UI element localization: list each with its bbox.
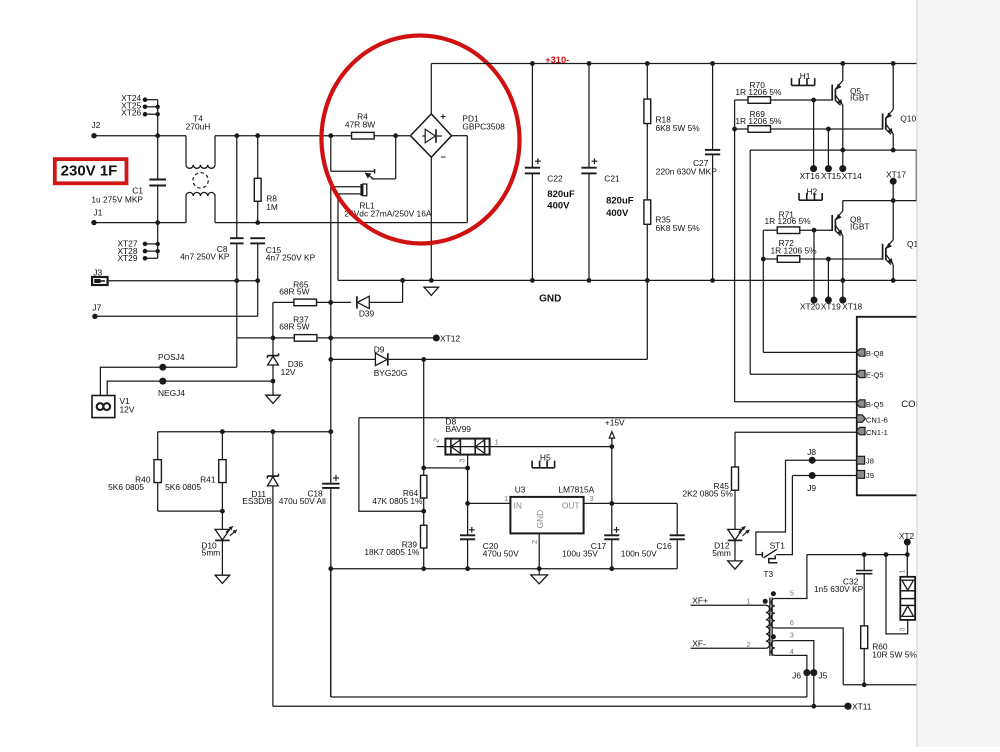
capacitor C32: [863, 555, 865, 571]
resistor R4: [352, 132, 375, 139]
transformer core: [769, 598, 771, 656]
wire J1 line to XT27-29: [157, 223, 159, 259]
svg-text:10R 5W 5%: 10R 5W 5%: [872, 649, 917, 659]
svg-text:100u 35V: 100u 35V: [562, 548, 598, 558]
wire 24V to D8 region: [423, 359, 425, 468]
wire 24V vertical A: [330, 187, 332, 484]
svg-text:3: 3: [790, 630, 794, 639]
zener D36: [272, 338, 274, 356]
pin J8: [857, 456, 865, 464]
wire snubber rail: [807, 554, 907, 556]
capacitor C17: [611, 503, 613, 535]
capacitor C18: [322, 483, 339, 485]
svg-text:+: +: [440, 112, 446, 123]
thermal switch ST1: [756, 460, 786, 554]
svg-text:3: 3: [900, 627, 907, 631]
svg-text:CN1-6: CN1-6: [866, 415, 888, 424]
wire D8 pin3 to U3 IN: [467, 468, 469, 503]
svg-text:BAV99: BAV99: [446, 424, 472, 434]
wire bridge - to GND bus: [430, 157, 432, 280]
svg-text:J5: J5: [818, 671, 827, 681]
svg-text:IGBT: IGBT: [850, 93, 870, 103]
svg-text:J8: J8: [866, 457, 874, 466]
wire XF+ pin1: [691, 604, 766, 606]
svg-text:J9: J9: [866, 471, 874, 480]
svg-text:NEGJ4: NEGJ4: [158, 388, 185, 398]
svg-text:1R 1206 5%: 1R 1206 5%: [765, 216, 812, 226]
transistor Q10: [882, 114, 884, 130]
svg-text:4n7 250V KP: 4n7 250V KP: [180, 252, 230, 262]
header H1: [792, 84, 815, 86]
pin CN1-6: [857, 415, 866, 422]
svg-text:1: 1: [504, 494, 508, 503]
node XT26: [145, 113, 158, 115]
resistor R64: [423, 468, 425, 476]
pin 6 wire: [775, 628, 843, 685]
ground for U3: [538, 569, 540, 575]
wire R40-R41 bottom: [158, 510, 223, 512]
svg-text:18K7 0805 1%: 18K7 0805 1%: [364, 547, 420, 557]
wire J7 to J3 net: [95, 315, 258, 317]
wire bridge + to +310 bus: [430, 64, 432, 114]
node XT20: [813, 230, 815, 300]
node XT14: [839, 165, 846, 172]
capacitor C8: [236, 136, 238, 239]
wire bridge AC right: [452, 135, 468, 137]
wire J3 line: [108, 280, 258, 282]
wire J1 line: [94, 222, 186, 224]
wire B-Q8 vertical: [762, 230, 764, 352]
svg-text:1n5 630V KP: 1n5 630V KP: [814, 584, 864, 594]
connector CON1 box: [857, 317, 917, 496]
svg-text:J7: J7: [92, 303, 101, 313]
svg-text:5: 5: [790, 589, 794, 598]
node XT27: [145, 243, 158, 245]
resistor R40: [157, 432, 159, 460]
pin 3 of U3: [584, 502, 678, 504]
pin CN1-1: [856, 427, 865, 434]
svg-text:B-Q5: B-Q5: [866, 400, 884, 409]
svg-text:47K 0805 1%: 47K 0805 1%: [372, 496, 423, 506]
svg-text:XT2: XT2: [899, 531, 915, 541]
capacitor C27: [710, 61, 715, 66]
capacitor C1: [157, 136, 159, 180]
wire R65 line: [272, 302, 274, 338]
svg-text:LM7815A: LM7815A: [558, 485, 594, 495]
svg-text:1M: 1M: [266, 202, 278, 212]
wire E-Q5 pin: [750, 373, 857, 375]
pin 1 of U3: [468, 502, 511, 504]
svg-text:820uF: 820uF: [547, 189, 575, 200]
pin 3 wire: [775, 641, 814, 707]
node XT24: [145, 99, 158, 101]
svg-text:XT20: XT20: [800, 301, 820, 311]
svg-text:1: 1: [900, 570, 907, 574]
wire D39 to GND bus: [402, 280, 404, 302]
resistor R39: [423, 511, 425, 525]
svg-text:H1: H1: [800, 71, 811, 81]
wire +310 bus: [431, 63, 916, 65]
svg-text:J3: J3: [93, 267, 102, 277]
svg-text:6K8 5W 5%: 6K8 5W 5%: [656, 223, 701, 233]
svg-text:XT26: XT26: [121, 108, 141, 118]
pin 2 of D8: [437, 446, 446, 448]
svg-text:D9: D9: [374, 345, 385, 355]
svg-text:400V: 400V: [547, 200, 570, 211]
svg-text:C21: C21: [604, 174, 620, 184]
relay RL1 coil: [331, 186, 361, 188]
node J6: [803, 669, 810, 676]
svg-text:470u 50V: 470u 50V: [483, 548, 519, 558]
capacitor C20: [467, 503, 469, 535]
svg-text:OUT: OUT: [562, 500, 580, 510]
svg-text:68R 5W: 68R 5W: [279, 321, 309, 331]
svg-text:2: 2: [747, 640, 751, 649]
svg-text:6K8 5W 5%: 6K8 5W 5%: [656, 123, 701, 133]
wire D9 to R18R35 net: [424, 358, 648, 360]
wire CN1-1 pin: [735, 431, 857, 433]
svg-text:4: 4: [790, 647, 794, 656]
svg-text:J1: J1: [94, 208, 103, 218]
svg-text:2: 2: [530, 540, 539, 544]
page edge: [917, 0, 1000, 747]
svg-text:ES3D/B: ES3D/B: [242, 496, 272, 506]
svg-text:B-Q8: B-Q8: [866, 349, 884, 358]
relay RL1 contact arm: [393, 133, 398, 138]
source V1 12V: [92, 396, 115, 418]
pin J9: [857, 471, 865, 479]
svg-text:5mm: 5mm: [712, 548, 731, 558]
svg-text:1u 275V MKP: 1u 275V MKP: [91, 195, 143, 205]
svg-text:470u 50V All: 470u 50V All: [279, 496, 326, 506]
svg-text:230V 1F: 230V 1F: [61, 163, 118, 180]
svg-text:POSJ4: POSJ4: [158, 352, 185, 362]
svg-text:C16: C16: [656, 541, 672, 551]
transistor Q5: [831, 85, 833, 101]
wire B-Q5 pin: [735, 401, 857, 403]
node XT29: [145, 257, 158, 259]
capacitor C21: [587, 61, 592, 66]
svg-text:J2: J2: [92, 120, 101, 130]
wire D11 down to XT11 rail: [272, 486, 274, 706]
capacitor C15: [250, 237, 265, 239]
svg-text:400V: 400V: [606, 208, 629, 219]
svg-text:U3: U3: [515, 485, 526, 495]
resistor R60: [861, 626, 868, 649]
svg-text:R41: R41: [200, 474, 216, 484]
capacitor C16: [676, 503, 678, 535]
node XT15: [827, 129, 829, 169]
svg-text:100n 50V: 100n 50V: [621, 548, 657, 558]
wire XF- pin2: [691, 647, 766, 649]
wire rail2: [843, 684, 916, 686]
svg-text:E-Q5: E-Q5: [866, 371, 884, 380]
wire NEGJ4: [107, 381, 273, 395]
resistor R71: [763, 229, 777, 231]
wire J9 pin: [792, 475, 856, 477]
svg-text:J6: J6: [792, 671, 801, 681]
svg-text:XT16: XT16: [800, 171, 820, 181]
svg-text:H2: H2: [807, 187, 818, 197]
power arrow +15V: [609, 432, 614, 439]
resistor R41: [221, 432, 223, 460]
red circle annotation: [314, 29, 526, 250]
wire R37 line: [237, 337, 295, 339]
ground at bridge: [424, 287, 439, 295]
wire J2 line: [94, 135, 186, 137]
resistor R70: [735, 99, 748, 101]
node XT11: [844, 703, 851, 710]
wire regulator ground rail: [331, 568, 677, 570]
resistor R8: [257, 136, 259, 179]
svg-text:T3: T3: [763, 569, 773, 579]
wire GND bus: [338, 279, 917, 281]
svg-text:1R 1206 5%: 1R 1206 5%: [771, 245, 818, 255]
diode D39: [357, 296, 369, 308]
led D12: [728, 529, 743, 540]
protection diode stack: [906, 542, 908, 577]
svg-text:5K6 0805: 5K6 0805: [108, 482, 144, 492]
svg-text:5mm: 5mm: [202, 548, 221, 558]
resistor R35: [644, 200, 651, 224]
pin 3 of D8: [467, 455, 469, 468]
wire emitter rail: [750, 149, 916, 151]
wire J8 pin: [786, 459, 857, 461]
wire B-Q5 vertical: [734, 100, 736, 402]
svg-text:J9: J9: [807, 483, 816, 493]
pin B-Q5: [856, 400, 865, 407]
wire R4 node A: [328, 133, 333, 138]
wire 24V vertical junctions: [328, 566, 333, 571]
node XT2: [904, 539, 911, 546]
svg-text:68R 5W: 68R 5W: [279, 286, 309, 296]
ground for D36: [272, 381, 274, 395]
node J5: [810, 669, 817, 676]
node XT28: [145, 250, 158, 252]
wire D9net to D8 pin3: [424, 467, 468, 469]
capacitor C22: [530, 61, 535, 66]
svg-text:H5: H5: [540, 452, 551, 462]
ground for D10: [215, 575, 230, 583]
svg-text:XT17: XT17: [886, 170, 906, 180]
svg-text:12V: 12V: [281, 367, 296, 377]
svg-text:220n 630V MKP: 220n 630V MKP: [656, 166, 717, 176]
svg-text:+15V: +15V: [605, 417, 625, 427]
svg-text:47R 8W: 47R 8W: [345, 119, 375, 129]
svg-text:XT18: XT18: [842, 301, 862, 311]
pin B-Q8: [856, 349, 865, 356]
svg-text:XT12: XT12: [440, 334, 460, 344]
wire 24V top line: [158, 431, 331, 433]
transformer secondary winding 2: [771, 641, 775, 656]
led D10: [221, 511, 223, 529]
svg-text:1R 1206 5%: 1R 1206 5%: [735, 87, 782, 97]
wire XT11 line: [273, 705, 848, 707]
pin 4 wire: [775, 655, 807, 697]
svg-text:820uF: 820uF: [606, 196, 634, 207]
transistor Q11: [882, 244, 884, 260]
node XT16: [813, 100, 815, 169]
wire R18-R35: [646, 124, 648, 201]
svg-text:GND: GND: [539, 293, 561, 304]
pin 5 wire: [775, 555, 807, 599]
header H5: [532, 467, 555, 469]
ground for D12: [728, 561, 743, 569]
svg-text:GND: GND: [535, 510, 545, 528]
svg-text:XT11: XT11: [852, 702, 872, 712]
label 230V 1F: [55, 159, 127, 183]
svg-text:Q10: Q10: [900, 113, 916, 123]
wire C8 net down: [236, 281, 238, 368]
resistor R69: [735, 128, 748, 130]
wire collector rail Q8/Q11: [843, 200, 917, 202]
svg-text:–: –: [441, 152, 446, 163]
svg-text:XT19: XT19: [821, 301, 841, 311]
svg-text:IGBT: IGBT: [850, 221, 870, 231]
svg-text:5K6 0805: 5K6 0805: [165, 482, 201, 492]
wire CN1-6 +15V line: [359, 417, 857, 419]
wire Q11 emitter junction: [891, 278, 896, 283]
wire POSJ4: [100, 367, 236, 395]
node XT12: [433, 335, 440, 342]
wire relay coil lead B to GND bus: [337, 194, 339, 281]
pin 1 of D8: [490, 446, 612, 448]
wire bottom rail: [331, 696, 807, 698]
pin E-Q5: [856, 370, 865, 377]
svg-text:XF+: XF+: [692, 596, 708, 606]
svg-text:C22: C22: [547, 174, 563, 184]
svg-text:XT29: XT29: [117, 253, 137, 263]
wire E-Q5 vertical: [749, 150, 751, 374]
transistor Q8: [831, 215, 833, 231]
diode D11 ES3D: [272, 432, 274, 476]
svg-text:1R 1206 5%: 1R 1206 5%: [735, 116, 782, 126]
svg-text:J8: J8: [807, 447, 816, 457]
svg-text:3: 3: [458, 458, 467, 462]
wire stack loop: [886, 555, 908, 634]
wire midpoint: [915, 150, 917, 201]
svg-text:D39: D39: [359, 308, 375, 318]
diode D9 BYG20G: [331, 358, 376, 360]
svg-text:12V: 12V: [120, 404, 135, 414]
svg-text:XF-: XF-: [692, 638, 706, 648]
svg-text:CN1-1: CN1-1: [866, 428, 888, 437]
svg-text:6: 6: [790, 618, 794, 627]
resistor R18: [645, 61, 650, 66]
svg-text:270uH: 270uH: [186, 122, 211, 132]
transformer secondary winding 1: [771, 599, 775, 629]
pin 2 of U3: [538, 533, 540, 568]
node XT18: [840, 278, 845, 283]
transformer primary winding: [766, 605, 770, 648]
svg-text:4n7 250V KP: 4n7 250V KP: [266, 252, 316, 262]
svg-text:3: 3: [590, 494, 594, 503]
resistor R72: [763, 258, 777, 260]
svg-text:IN: IN: [514, 500, 522, 510]
svg-text:BYG20G: BYG20G: [374, 368, 408, 378]
header H2: [799, 199, 822, 201]
node XT25: [145, 106, 158, 108]
svg-text:ST1: ST1: [770, 541, 786, 551]
svg-text:1: 1: [747, 597, 751, 606]
wire B-Q8 pin: [763, 351, 857, 353]
svg-text:2K2 0805 5%: 2K2 0805 5%: [683, 488, 734, 498]
bridge rectifier PD1: [410, 114, 451, 157]
svg-text:1: 1: [495, 438, 499, 447]
wire +15V vertical: [611, 447, 613, 504]
svg-text:XT14: XT14: [842, 171, 862, 181]
node XT17: [890, 178, 897, 185]
wire +15V left loop: [359, 418, 424, 512]
node XT19: [827, 259, 829, 300]
svg-text:XT15: XT15: [821, 171, 841, 181]
svg-text:GBPC3508: GBPC3508: [462, 122, 505, 132]
resistor R45: [734, 432, 736, 467]
wire XT24-26 to J2 line: [157, 100, 159, 136]
